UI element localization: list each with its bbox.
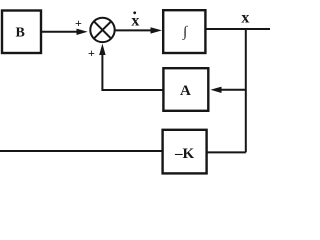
svg-text:B: B (16, 26, 25, 41)
arrowhead into integrator (151, 27, 163, 33)
wire -K output to left edge (0, 150, 163, 152)
wire -K input (207, 151, 246, 153)
wire B to summer (41, 31, 79, 33)
block A (163, 68, 208, 111)
svg-text:A: A (180, 83, 191, 99)
arrowhead into summer (77, 29, 88, 35)
svg-text:+: + (75, 16, 82, 30)
wire up into summer (101, 52, 103, 91)
arrowhead into block A (211, 87, 222, 93)
block -K (163, 130, 207, 174)
arrowhead up into summer (99, 44, 105, 55)
svg-text:x: x (131, 13, 139, 30)
block B (2, 11, 41, 54)
summing junction (90, 18, 114, 42)
wire branch to block A (219, 89, 246, 91)
integrator block U2 (163, 10, 205, 53)
svg-text:x: x (241, 10, 249, 27)
svg-text:+: + (88, 46, 95, 60)
wire summer to integrator (115, 29, 153, 31)
wire A output to below summer (102, 89, 163, 91)
svg-text:–K: –K (174, 146, 195, 162)
wire vertical feedback line (245, 28, 247, 152)
wire integrator output to right edge (205, 28, 270, 30)
